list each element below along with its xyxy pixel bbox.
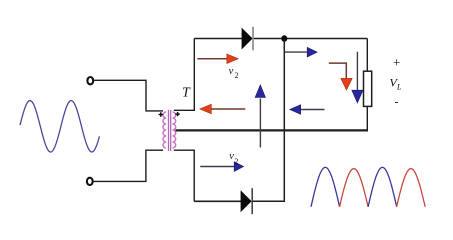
svg-text:L: L (396, 83, 402, 92)
svg-text:-: - (395, 95, 399, 109)
output waveform hump 3 (blue) (368, 167, 397, 207)
current arrow (blue, right, from junction line) (285, 51, 309, 53)
wire: bottom input to transformer primary bottom (93, 150, 163, 181)
wire: center-tap line (176, 129, 369, 131)
svg-text:+: + (393, 55, 400, 70)
svg-text:v: v (229, 66, 234, 77)
current arrow (red, bent, into load) (329, 63, 347, 79)
wire: load bottom to center-tap line (366, 106, 368, 130)
wire: secondary top to top rail (174, 39, 195, 111)
svg-text:T: T (182, 86, 191, 101)
diode D2 (241, 190, 252, 212)
wire: right rail (junction to load top) (366, 39, 368, 73)
wire: secondary bottom to bottom rail (174, 150, 194, 201)
diode D1 (242, 28, 253, 50)
wire: top rail right of diode D1 (254, 38, 367, 40)
current arrow (blue, down, through load) (356, 52, 358, 92)
output waveform hump 1 (blue) (311, 167, 340, 207)
terminal (bottom input) (87, 178, 93, 185)
wire: top input to transformer primary top (94, 80, 163, 111)
wire: bottom rail left of diode D2 (194, 200, 241, 202)
current arrow (red, left, above center tap) (211, 108, 246, 110)
load resistor (364, 71, 372, 106)
input sine waveform (20, 101, 100, 153)
svg-text:2: 2 (234, 157, 238, 166)
polarity mark + (secondary) (175, 112, 179, 116)
current arrow v2 top (red, right) (197, 58, 228, 60)
output waveform hump 4 (red) (397, 169, 426, 207)
current arrow (blue, left, above center tap right side) (300, 109, 325, 111)
wire: bottom rail from diode D2 up to junction (253, 39, 284, 201)
current arrow (blue, up, through D2 branch) (259, 99, 261, 148)
transformer T secondary winding (173, 112, 176, 148)
node: junction dot (281, 35, 287, 42)
current arrow v2 bottom (blue, right) (200, 166, 235, 168)
svg-text:2: 2 (235, 71, 239, 80)
output waveform hump 2 (red) (340, 169, 369, 207)
terminal (top input) (87, 77, 93, 84)
transformer T primary winding (163, 112, 166, 148)
wire: top rail left of diode D1 (194, 38, 242, 40)
polarity mark + (primary) (159, 112, 163, 116)
transformer T core (168, 110, 170, 151)
